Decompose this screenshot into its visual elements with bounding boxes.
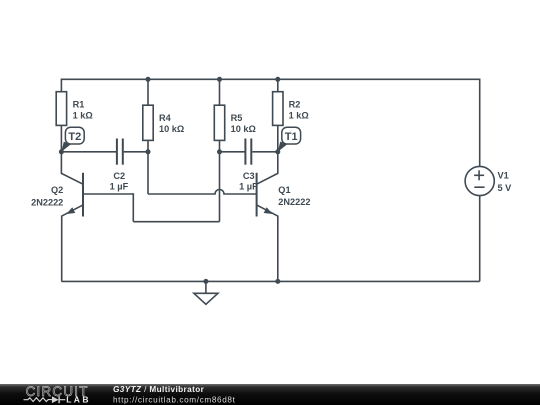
junction bottom rail / Q1 emitter [275, 279, 280, 284]
svg-text:V1: V1 [498, 171, 509, 181]
wire node B down to base row [147, 152, 149, 194]
wire node C to C3 left plate [220, 151, 245, 153]
svg-text:C3: C3 [243, 171, 255, 181]
svg-text:T1: T1 [285, 131, 298, 143]
transistor Q1 [257, 152, 311, 282]
wire C3 right plate to node D [252, 151, 277, 153]
wire bottom rail [61, 280, 479, 282]
wire R4 bottom lead to node B [147, 140, 149, 151]
wire Q2 base run [83, 193, 133, 195]
voltage source V1 [465, 166, 512, 195]
wire lower coupling run [133, 221, 219, 223]
wire right rail lower (V1 - to bottom rail) [479, 196, 481, 282]
svg-text:Q1: Q1 [278, 185, 290, 195]
svg-text:1 kΩ: 1 kΩ [289, 110, 309, 120]
terminal flag T1 [278, 127, 301, 152]
svg-text:R2: R2 [289, 99, 301, 109]
junction top rail / R5 [217, 77, 222, 82]
junction top rail / R2 [275, 77, 280, 82]
node D junction (Q1 collector) [275, 149, 280, 154]
ground [194, 281, 218, 304]
svg-text:http://circuitlab.com/cm86d8t: http://circuitlab.com/cm86d8t [113, 395, 236, 404]
wire R1 bottom lead to node A [60, 125, 62, 151]
svg-text:10 kΩ: 10 kΩ [159, 124, 184, 134]
wire top rail V+ [61, 78, 479, 80]
wire R1 top lead [60, 79, 62, 92]
resistor R2 [273, 92, 309, 126]
svg-text:R5: R5 [231, 113, 243, 123]
capacitor C2 [110, 139, 129, 192]
junction bottom rail / ground [203, 279, 208, 284]
footer bar [0, 384, 540, 405]
wire lower coupling up to node C (under hop) [219, 152, 221, 222]
svg-text:1 µF: 1 µF [110, 181, 129, 191]
wire node B to Q1 base with crossover hop [148, 190, 257, 195]
wire Q2 base corner down [132, 193, 134, 222]
junction top rail / R4 [146, 77, 151, 82]
CircuitLab logo diode [52, 396, 65, 403]
svg-text:Q2: Q2 [51, 185, 63, 195]
node C junction (R5 bottom) [217, 149, 222, 154]
transistor Q2 [31, 152, 83, 282]
wire R5 bottom lead to node C [219, 140, 221, 151]
svg-text:G3YTZ / Multivibrator: G3YTZ / Multivibrator [113, 385, 205, 394]
svg-text:R4: R4 [159, 113, 172, 123]
capacitor C3 [239, 139, 258, 192]
svg-text:2N2222: 2N2222 [278, 197, 310, 207]
terminal flag T2 [61, 127, 84, 152]
wire R5 top lead [219, 79, 221, 105]
CircuitLab logo resistor-diode squiggle [24, 398, 52, 402]
svg-text:1 kΩ: 1 kΩ [73, 110, 93, 120]
wire right rail upper (to V1 +) [479, 79, 481, 167]
svg-text:2N2222: 2N2222 [31, 197, 63, 207]
svg-text:LAB: LAB [66, 394, 91, 404]
svg-text:1 µF: 1 µF [239, 181, 258, 191]
wire R2 bottom lead to node D [277, 125, 279, 151]
resistor R1 [56, 92, 93, 126]
svg-text:T2: T2 [68, 131, 81, 143]
svg-text:C2: C2 [113, 171, 125, 181]
svg-text:10 kΩ: 10 kΩ [231, 124, 256, 134]
svg-text:R1: R1 [73, 99, 85, 109]
resistor R5 [214, 105, 256, 140]
node A junction (Q2 collector) [59, 149, 64, 154]
wire node A to C2 left plate [61, 151, 116, 153]
wire R4 top lead [147, 79, 149, 105]
wire R2 top lead [277, 79, 279, 91]
node B junction (R4 bottom) [146, 149, 151, 154]
resistor R4 [143, 105, 184, 140]
svg-text:5 V: 5 V [498, 183, 513, 193]
wire C2 right plate to node B [124, 151, 148, 153]
